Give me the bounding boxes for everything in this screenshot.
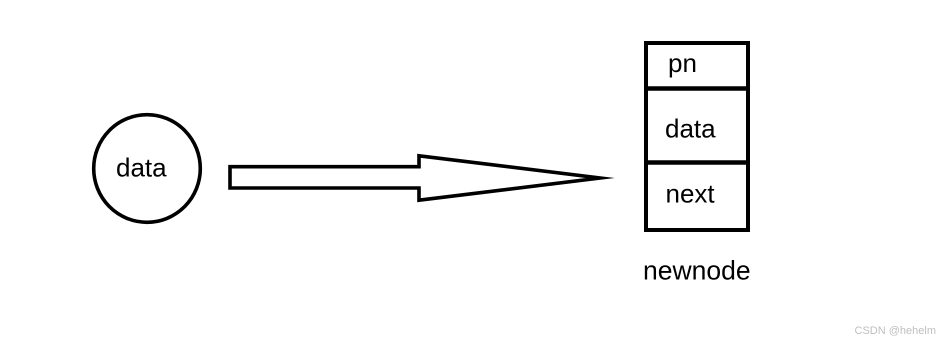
- svg-text:CSDN @hehelm: CSDN @hehelm: [855, 325, 936, 337]
- svg-text:next: next: [666, 179, 716, 209]
- svg-text:newnode: newnode: [643, 256, 751, 286]
- svg-text:data: data: [665, 114, 716, 144]
- svg-text:pn: pn: [668, 48, 697, 78]
- svg-text:data: data: [116, 153, 167, 183]
